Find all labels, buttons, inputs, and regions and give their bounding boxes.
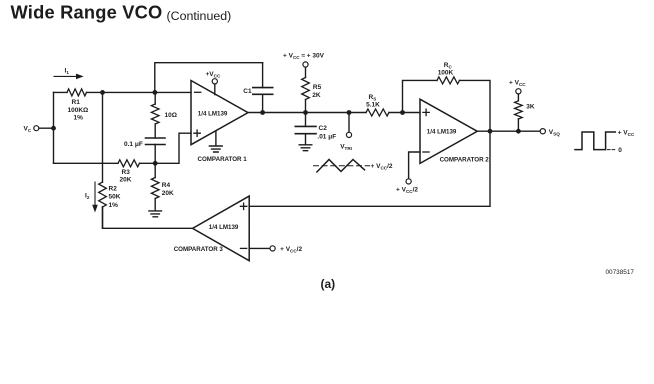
svg-text:R1: R1 [72,99,81,106]
wire: comparator 2 inverting input to +Vcc/2 terminal [409,152,420,179]
junction node Rc tap [400,110,405,115]
terminal +Vcc 30V [303,62,308,67]
svg-text:+ VCC: + VCC [509,79,526,87]
capacitor C2 .01uF [295,126,316,133]
resistor Rc 100K [437,77,459,84]
wire: Rc feedback loop around comparator 2 [403,80,491,131]
junction node comp1 minus rail [153,90,158,95]
svg-text:R5: R5 [313,84,322,91]
resistor R1 100K 1% [67,89,87,96]
terminal +Vcc/2 comparator 3 [270,246,275,251]
svg-text:.01 μF: .01 μF [317,134,336,141]
terminal +Vcc/2 comparator 2 [406,179,411,184]
capacitor C1 [253,88,273,95]
svg-text:+ VCC/2: + VCC/2 [371,163,393,171]
wire: R4 branch to ground [154,163,156,210]
junction node Vc [51,126,56,131]
svg-text:R3: R3 [122,169,131,176]
svg-text:R2: R2 [109,186,118,193]
svg-text:00738517: 00738517 [606,269,635,276]
resistor R4 20K [151,178,159,199]
svg-text:20K: 20K [162,190,174,197]
wire: R2 vertical branch [102,92,104,228]
pin: comparator 1 minus [195,91,201,93]
svg-text:(a): (a) [321,277,336,291]
svg-text:C2: C2 [319,125,328,132]
wire: 3K pull-up branch [517,94,519,131]
svg-text:I1: I1 [65,68,70,76]
svg-text:VSQ: VSQ [549,129,560,137]
svg-text:COMPARATOR 2: COMPARATOR 2 [440,157,490,164]
svg-text:+ VCC ≈ + 30V: + VCC ≈ + 30V [283,52,325,60]
wire: feedback from comp2 output down to comparator 3 + input [249,131,490,206]
capacitor 0.1uF [146,138,166,145]
terminal V_SQ [540,129,545,134]
pin: comparator 2 minus [423,151,429,153]
ground: C2 [299,145,312,151]
pin: comparator 2 plus [423,109,429,115]
pin: comparator 3 minus [241,247,247,249]
waveform: square wave symbol [575,132,615,150]
resistor R5 2K [302,78,310,100]
svg-text:Wide Range VCO: Wide Range VCO [11,2,163,23]
svg-text:100K: 100K [438,70,454,77]
svg-text:VC: VC [24,126,32,134]
wire: R5 supply branch [305,67,307,112]
wire: left vertical from R1 to Vc and R3 rail [53,92,55,163]
svg-text:I2: I2 [85,193,90,201]
svg-text:0.1 μF: 0.1 μF [124,141,143,148]
terminal V_TRI [346,132,351,137]
junction node R5/C2 [303,110,308,115]
wire: C2 branch to ground [305,113,307,145]
resistor 10 ohm [151,104,159,124]
svg-text:R4: R4 [162,182,171,189]
wire: C1 feedback top rail [155,63,263,93]
wire: C1 branch verticals [262,63,264,113]
arrow I2 [94,182,96,207]
ground: comparator 1 [209,131,222,152]
wire: V_TRI stub [348,113,350,133]
svg-text:20K: 20K [120,177,132,184]
svg-text:RC: RC [444,62,453,70]
junction node R1-R2 [100,90,105,95]
junction node C1 output [260,110,265,115]
svg-text:50K: 50K [109,194,121,201]
svg-text:10Ω: 10Ω [165,112,177,119]
op-amp U3 comparator 3 triangle [193,196,250,261]
svg-text:(Continued): (Continued) [167,9,232,23]
resistor R3 20K [118,160,139,167]
svg-text:+VCC: +VCC [206,71,221,79]
resistor R2 50K 1% [99,182,107,207]
svg-text:+ VCC/2: + VCC/2 [280,246,302,254]
svg-text:C1: C1 [243,88,252,95]
waveform: triangle wave symbol [317,160,365,173]
arrowhead I2 [92,205,98,213]
svg-text:COMPARATOR 1: COMPARATOR 1 [198,156,248,163]
arrow I1 [54,75,78,77]
junction node V_TRI [347,110,352,115]
wire: comparator 1 inverting-input rail (R1 node line) [54,91,192,93]
resistor 3K [515,101,523,119]
op-amp U2 comparator 2 triangle [420,99,477,163]
junction node R3/R4/cap [153,161,158,166]
wire: R3 rail to comparator 1 + input [54,133,192,163]
svg-text:1/4 LM139: 1/4 LM139 [427,129,457,136]
wire: +Vcc pin stub comparator 1 [214,84,216,95]
pin: comparator 3 plus [240,203,246,209]
waveform: square wave zero dashed line [608,149,617,151]
op-amp U1 comparator 1 triangle [191,81,248,145]
pin: comparator 1 plus [194,130,200,136]
junction node 3K pull-up [516,129,521,134]
svg-text:1/4 LM139: 1/4 LM139 [209,224,239,231]
wire: comparator 3 inverting input stub [249,247,270,249]
arrowhead I1 [76,74,84,80]
svg-text:100KΩ: 100KΩ [68,107,89,114]
wire: Vc input stub [39,127,54,129]
wire: 10-ohm / 0.1uF branch [154,92,156,163]
svg-text:2K: 2K [312,92,321,99]
ground: R4 [149,211,162,217]
svg-text:1/4 LM139: 1/4 LM139 [198,110,228,117]
svg-text:0: 0 [618,147,622,154]
wire: main triangle output rail comp1 to comp2 [248,112,420,114]
terminal +Vcc 3K [516,89,521,94]
terminal Vc [34,126,39,131]
svg-text:COMPARATOR 3: COMPARATOR 3 [174,246,224,253]
svg-text:1%: 1% [74,114,84,121]
resistor Rs 5.1K [366,109,389,116]
junction node comp2 output feedback [488,129,493,134]
svg-text:+ VCC/2: + VCC/2 [396,186,418,194]
svg-text:5.1K: 5.1K [366,102,380,109]
svg-text:+ VCC: + VCC [618,130,635,138]
svg-text:VTRI: VTRI [340,144,352,152]
svg-text:3K: 3K [526,103,535,110]
terminal +Vcc comparator 1 [212,79,217,84]
wire: comparator 3 output back to R2 [103,207,193,228]
waveform: triangle wave mid dashed line [314,165,370,167]
wire: comparator 2 output to V_SQ terminal [477,130,540,132]
svg-text:1%: 1% [109,202,119,209]
